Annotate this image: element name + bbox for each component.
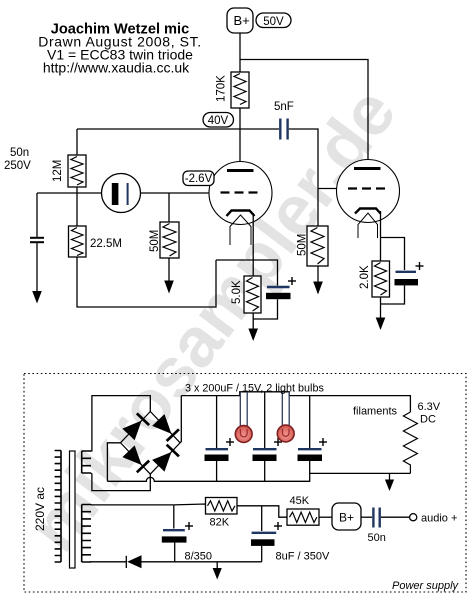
ground arrow below 50M grid leak <box>164 258 174 294</box>
capacitor cathode bypass V1b plus plate <box>396 271 417 273</box>
wire cap F2 to ground rail <box>264 461 266 481</box>
V1a anode <box>227 169 254 172</box>
diode D4 bridge bottom-right <box>152 445 179 472</box>
svg-text:50M: 50M <box>297 234 309 256</box>
wire cap bottom to resistor bottom <box>253 299 277 319</box>
wire capsule to V1a grid <box>141 192 210 194</box>
power supply dashed border <box>24 374 466 593</box>
V1a cathode <box>227 211 255 217</box>
light bulb 2 leads <box>282 392 289 430</box>
resistor 5.0K <box>244 276 261 313</box>
wire HT rail to 82K <box>174 504 206 506</box>
wire B+ box to 50n <box>361 516 372 518</box>
node label -2.6V <box>183 171 214 186</box>
svg-text:filaments: filaments <box>353 406 398 418</box>
light bulb 1 leads <box>240 392 247 430</box>
capsule diaphragm <box>127 183 129 205</box>
wire cap F1 to ground rail <box>216 461 218 481</box>
wire bridge minus corner down <box>107 443 120 482</box>
wire 8/350 to bottom rail <box>174 543 176 562</box>
svg-text:50n: 50n <box>10 147 29 159</box>
terminal audio + <box>410 514 417 521</box>
wire cathode to 5.0K <box>252 260 254 276</box>
capacitor F1 200uF plus plate <box>206 448 229 450</box>
wire heater winding bottom to bridge AC bottom <box>91 473 150 491</box>
V1b cathode <box>355 209 381 214</box>
wire 5nF to grid2 node <box>289 129 318 226</box>
diode D1 bridge top-left <box>122 413 149 440</box>
capacitor F2 200uF minus plate <box>253 455 277 462</box>
resistor 2.0K <box>372 261 390 297</box>
transformer core <box>70 451 76 568</box>
ground arrow below 50M interstage <box>313 266 323 295</box>
svg-text:50n: 50n <box>368 532 386 544</box>
wire cap F3 to ground rails (step) <box>309 461 311 482</box>
wire cap F1 riser <box>216 396 218 448</box>
capacitor 50n 250V <box>30 238 44 242</box>
tube V1b envelope <box>337 160 400 223</box>
filament supply rail <box>181 392 410 412</box>
capacitor 8/350 plus plate <box>163 529 185 531</box>
wire 22.5M bottom to cathode loop <box>77 257 216 307</box>
svg-text:45K: 45K <box>290 495 310 507</box>
svg-text:220V ac: 220V ac <box>33 487 47 531</box>
capacitor 50n output <box>373 508 379 528</box>
capacitor 8uF/350V minus plate <box>251 539 275 546</box>
filament return rail <box>310 472 411 474</box>
wire cap bottom to 2.0K bottom <box>381 285 405 304</box>
ground rail with hop over AC wire <box>107 477 309 481</box>
svg-text:5.0K: 5.0K <box>231 280 243 304</box>
svg-text:170K: 170K <box>216 75 228 102</box>
resistor 82K <box>206 498 238 515</box>
svg-text:3 x 200uF / 15V, 2 light bulbs: 3 x 200uF / 15V, 2 light bulbs <box>185 383 324 395</box>
wire anode node to 5nF <box>240 128 279 130</box>
plus sign V1a bypass <box>288 277 296 285</box>
resistor 50M (grid leak) <box>160 222 179 258</box>
ground arrow filament return <box>385 473 394 491</box>
tube V1a envelope <box>209 162 272 225</box>
wire cathode branch left <box>216 259 253 261</box>
wire B+ down to rail <box>239 33 241 72</box>
plus sign cap F3 <box>319 438 327 446</box>
capacitor 8/350 minus plate <box>162 536 187 542</box>
capsule backplate <box>112 183 119 205</box>
plus sign cap F2 <box>274 438 282 446</box>
diode D2 bridge top-right <box>152 414 179 441</box>
capacitor cathode bypass V1a plus plate <box>267 286 290 288</box>
bridge diamond outline <box>121 412 181 475</box>
svg-text:12M: 12M <box>52 160 64 182</box>
V1a heater <box>230 215 251 245</box>
V1a grid (dashed) <box>221 191 258 193</box>
diode D3 bridge bottom-left <box>122 445 149 472</box>
svg-text:50V: 50V <box>263 16 284 28</box>
svg-text:B+: B+ <box>234 13 250 28</box>
V1b heater <box>358 213 378 238</box>
resistor 170K <box>231 72 249 108</box>
svg-text:5nF: 5nF <box>274 101 294 113</box>
B+ supply box (top) <box>227 8 253 33</box>
node label 40V <box>203 113 234 128</box>
wire 50n to output terminal <box>381 516 410 518</box>
wire HT winding top to B rail <box>91 504 174 506</box>
transformer primary winding <box>55 451 61 563</box>
wire 82K to 45K with step <box>237 506 287 517</box>
wire V1b cathode down <box>380 211 382 261</box>
wire 12M top <box>76 129 78 155</box>
wire 22.5M top <box>76 193 78 226</box>
capacitor cathode bypass V1a minus plate <box>266 293 291 299</box>
capacitor 8uF/350V plus plate <box>252 532 277 534</box>
diode D5 half-wave <box>126 555 141 568</box>
plus sign 8uF/350V <box>274 522 282 530</box>
svg-text:82K: 82K <box>210 517 230 529</box>
capacitor F3 200uF minus plate <box>298 455 323 462</box>
wire cap F2 riser <box>264 392 266 448</box>
svg-text:DC: DC <box>420 414 436 426</box>
wire V1a cathode down <box>252 213 254 260</box>
svg-text:6.3V: 6.3V <box>418 401 441 413</box>
wire HT winding bottom to diode <box>90 561 126 563</box>
B+ output box <box>332 503 361 530</box>
plus sign 8/350 <box>185 522 193 530</box>
svg-text:40V: 40V <box>208 115 229 127</box>
capacitor 5nF <box>280 119 287 140</box>
title text block <box>38 22 201 76</box>
ground arrow HT rail <box>213 562 222 580</box>
svg-text:-2.6V: -2.6V <box>185 173 213 185</box>
svg-text:Power supply: Power supply <box>392 580 460 592</box>
wire 2.0K bottom <box>380 297 382 318</box>
wire B+ rail to V1b anode <box>240 60 368 169</box>
svg-text:22.5M: 22.5M <box>90 238 122 250</box>
wire 45K to B+ box <box>319 516 332 518</box>
wire 50M grid-leak top <box>168 193 170 222</box>
svg-text:8/350: 8/350 <box>185 551 213 563</box>
transformer secondary (heater winding) <box>82 451 91 473</box>
bottom HT rail <box>142 561 262 563</box>
V1b anode <box>354 167 381 170</box>
node label 50V <box>256 13 291 28</box>
wire anode node to 12M column <box>77 128 240 130</box>
svg-text:50M: 50M <box>149 230 161 252</box>
light bulb 1 filament <box>240 429 247 437</box>
capsule body <box>102 174 141 213</box>
transformer secondary (HT winding) <box>82 505 91 563</box>
resistor 50M (interstage) <box>307 226 328 266</box>
wire cap F3 riser <box>309 396 311 448</box>
V1b grid (dashed) <box>348 187 385 189</box>
wire V1b cathode branch to cap <box>381 238 405 271</box>
capacitor F2 200uF plus plate <box>253 448 277 450</box>
plus sign V1b bypass <box>416 262 424 270</box>
resistor 12M <box>68 155 86 187</box>
wire 8uF/350V to bottom rail <box>261 546 263 562</box>
resistor 45K <box>287 509 319 525</box>
svg-text:B+: B+ <box>339 511 354 525</box>
wire heater winding top to bridge AC top <box>91 396 150 451</box>
ground arrow below 5.0K <box>248 329 258 342</box>
svg-text:audio +: audio + <box>421 513 457 525</box>
svg-text:http://www.xaudia.cc.uk: http://www.xaudia.cc.uk <box>43 60 190 76</box>
wire 12M bottom to grid node <box>76 187 78 193</box>
capacitor cathode bypass V1b minus plate <box>395 279 419 285</box>
plus sign cap F1 <box>226 438 234 446</box>
capacitor F3 200uF plus plate <box>298 448 322 450</box>
svg-text:250V: 250V <box>4 160 31 172</box>
wire grid2 <box>318 188 337 190</box>
wire 50n column <box>36 193 38 237</box>
wire cathode branch right to cap <box>253 260 277 286</box>
wire bridge plus corner up to filament rail <box>180 396 181 443</box>
resistor filament dropper <box>403 412 417 473</box>
light bulb 2 <box>277 425 294 442</box>
wire 170K to anode node <box>239 108 241 171</box>
light bulb 1 <box>235 426 252 443</box>
svg-text:8uF / 350V: 8uF / 350V <box>276 551 330 563</box>
wire 8uF/350V riser <box>261 506 263 531</box>
light bulb 2 filament <box>282 429 289 437</box>
resistor 22.5M <box>69 226 87 257</box>
wire 8/350 riser <box>173 505 175 529</box>
wire grid node left to 50n <box>37 192 102 194</box>
svg-text:2.0K: 2.0K <box>359 265 371 289</box>
ground arrow below 2.0K <box>376 318 386 331</box>
ground arrow below 50n <box>32 242 42 303</box>
wire 5.0K bottom <box>252 313 254 329</box>
capacitor F1 200uF minus plate <box>205 455 229 462</box>
